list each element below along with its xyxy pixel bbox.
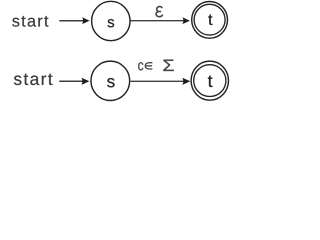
accepting state t inner circle (row 1) <box>194 4 225 35</box>
start label (row 1) <box>12 16 48 27</box>
epsilon middle bar <box>159 11 161 13</box>
label t (row 1) <box>208 15 212 25</box>
wire: s->t shaft (row 2) <box>131 80 184 82</box>
wire: start arrow shaft (row 2) <box>59 80 83 82</box>
accepting state t outer circle (row 2) <box>191 61 228 100</box>
accepting state t inner circle (row 2) <box>194 65 226 97</box>
arrowhead start->s (row 1) <box>82 17 90 24</box>
wire: s->t shaft (row 1) <box>130 20 183 22</box>
state s (row 2) <box>91 61 130 100</box>
edge label epsilon (row 1) <box>156 7 162 17</box>
state s (row 1) <box>92 1 130 40</box>
arrowhead start->s (row 2) <box>81 78 89 85</box>
edge label Sigma (row 2) <box>163 60 173 71</box>
arrowhead s->t (row 2) <box>182 78 190 85</box>
wire: start arrow shaft (row 1) <box>59 20 83 22</box>
edge label element-of (row 2) <box>145 63 152 69</box>
arrowhead s->t (row 1) <box>182 17 190 24</box>
edge label c (row 2) <box>138 62 143 70</box>
accepting state t outer circle (row 1) <box>192 2 228 39</box>
start label (row 2) <box>14 74 53 85</box>
label t (row 2) <box>208 76 212 87</box>
label s (row 1) <box>108 19 115 27</box>
label s (row 2) <box>107 78 114 87</box>
